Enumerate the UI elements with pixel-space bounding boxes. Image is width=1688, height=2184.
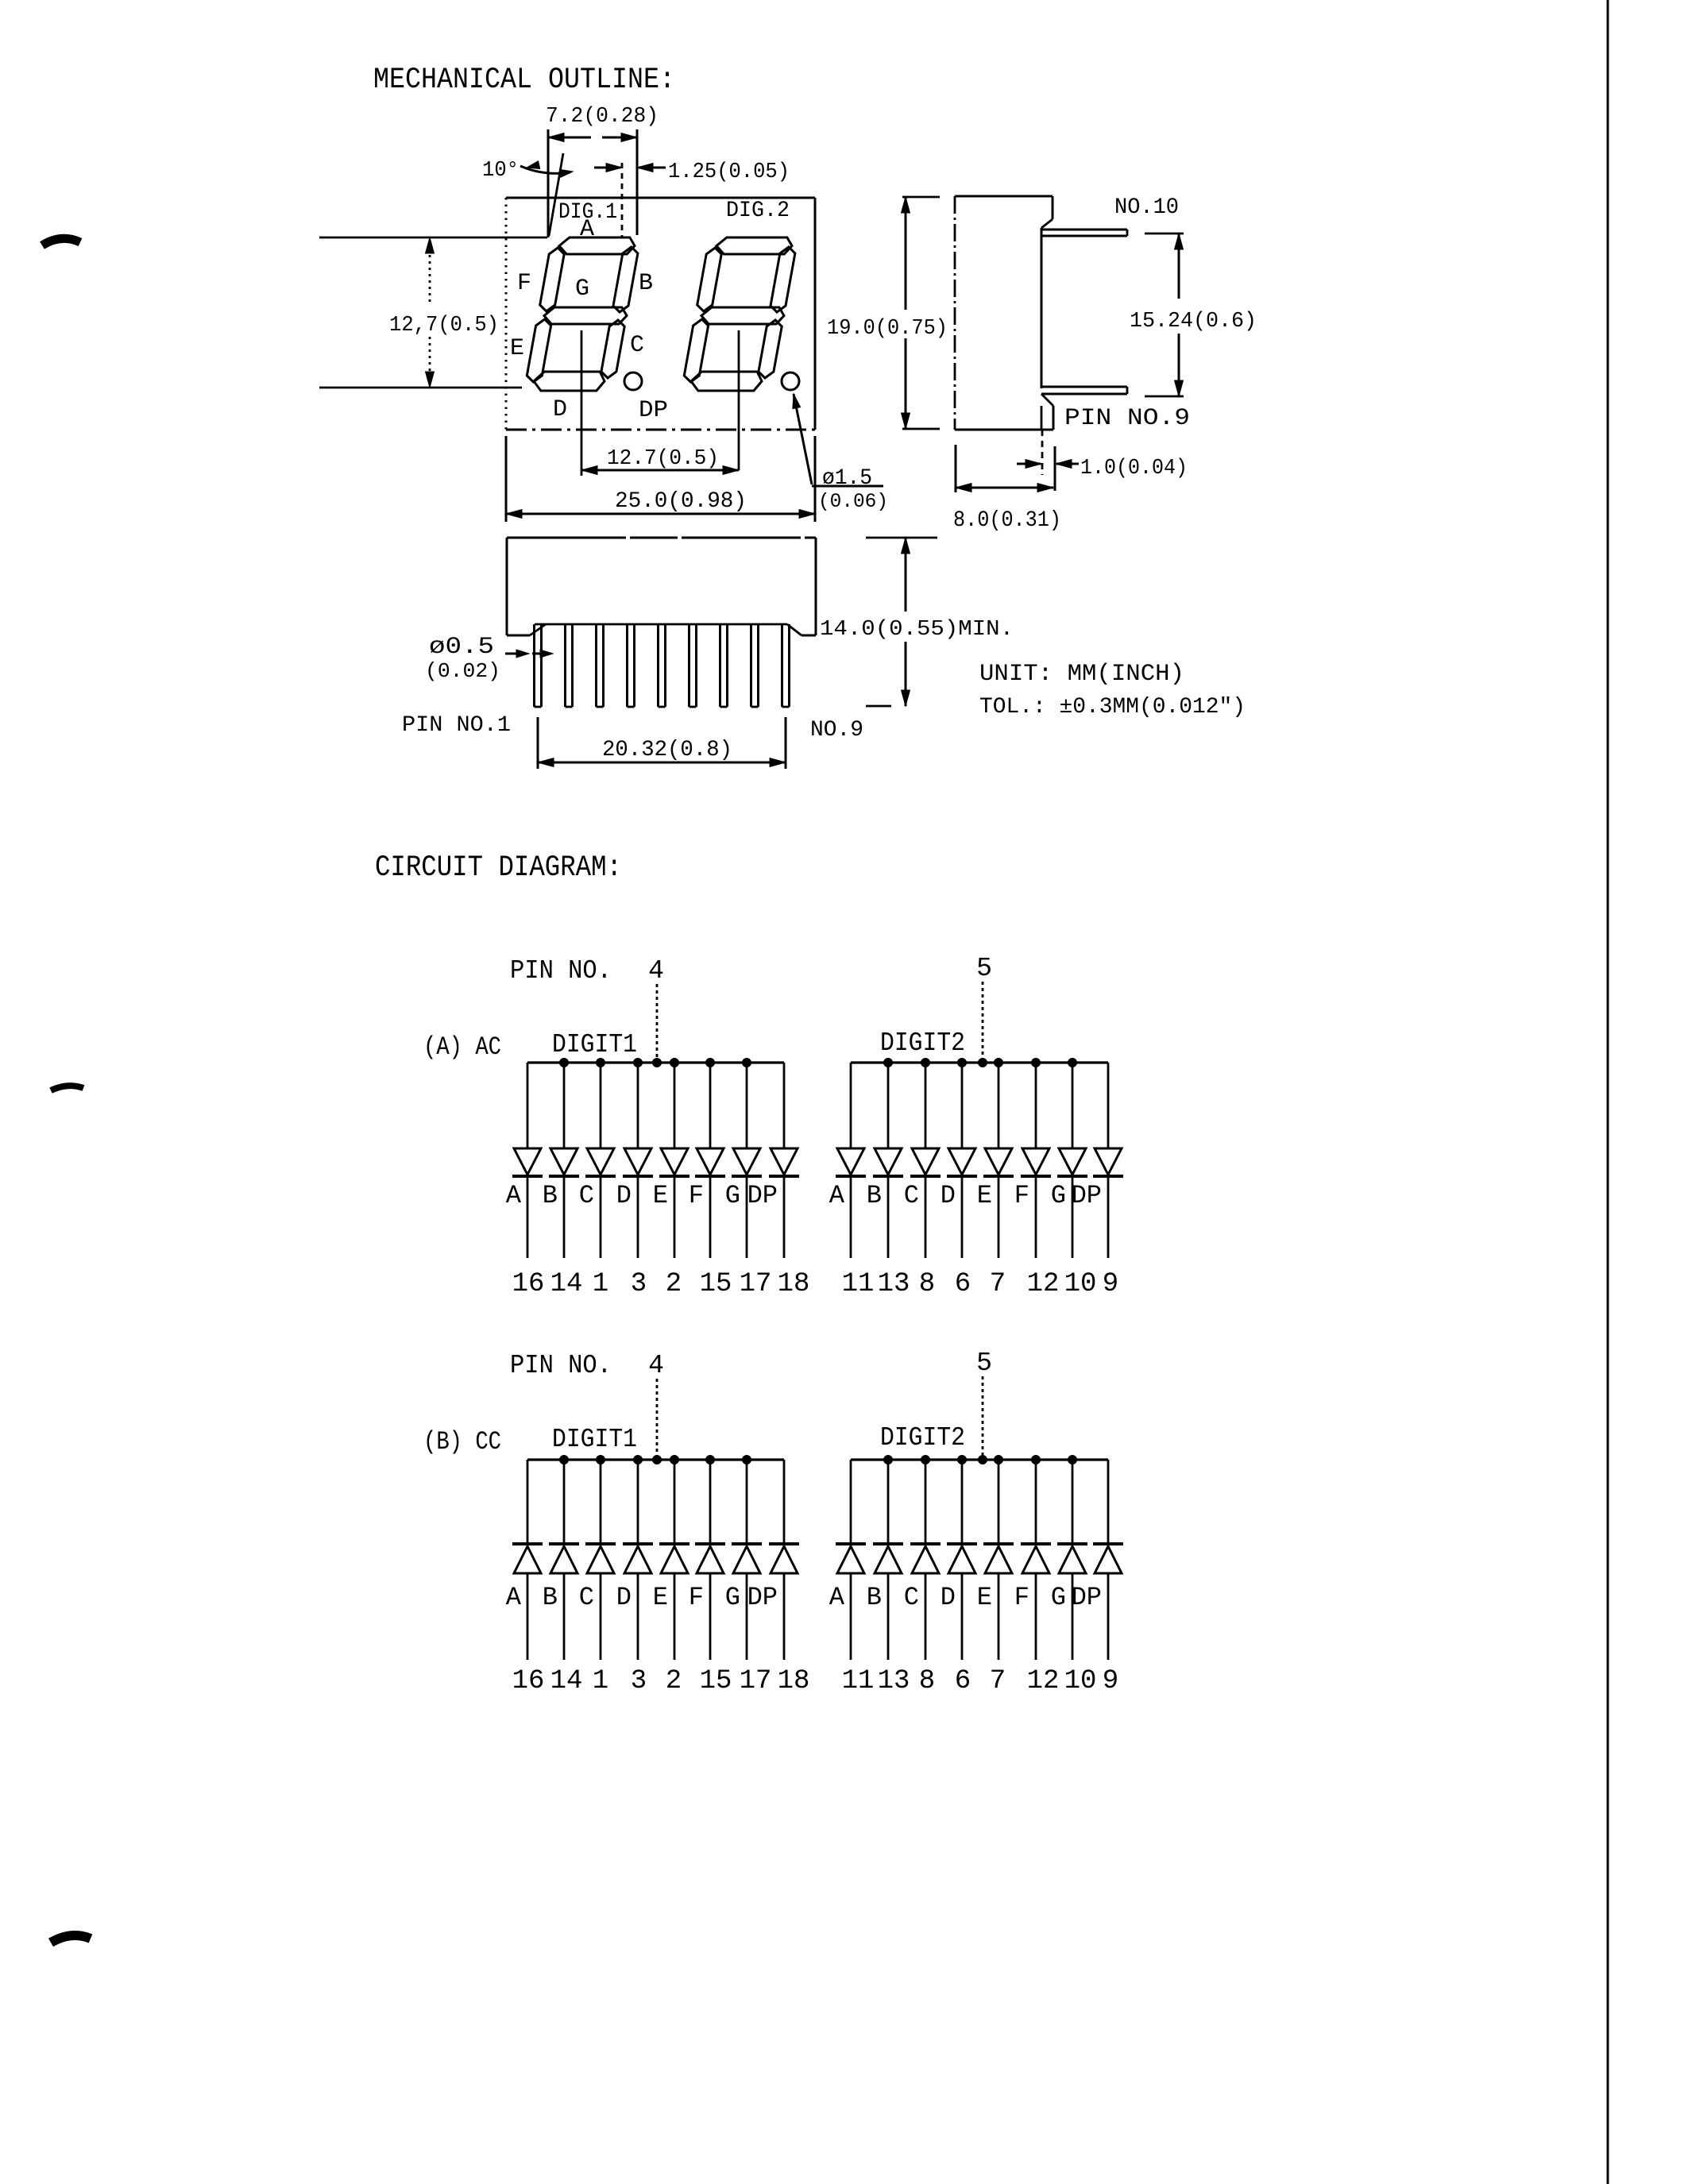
junction node (B digit2 x=1304) (1032, 1456, 1041, 1464)
svg-text:E: E (653, 1181, 668, 1210)
svg-text:D: D (616, 1583, 632, 1612)
LED diode A-DIG1-D (623, 1063, 653, 1258)
dimension 7.2(0.28) (546, 105, 659, 237)
pin 4 lead (628, 624, 635, 707)
svg-text:8: 8 (919, 1269, 935, 1299)
dimension 1.25(0.05) (594, 160, 790, 238)
LED diode A-DIG2-D (947, 1063, 977, 1258)
svg-text:15.24(0.6): 15.24(0.6) (1130, 310, 1257, 334)
pin 3 lead (597, 624, 604, 707)
dimension 20.32(0.8) (538, 717, 786, 769)
LED diode A-DIG2-F (1021, 1063, 1051, 1258)
svg-text:B: B (639, 270, 653, 297)
digit 1 decimal point (624, 372, 642, 390)
LED diode B-DIG2-F (1021, 1460, 1051, 1660)
10 degree draft angle (482, 153, 573, 236)
svg-text:F: F (517, 270, 531, 297)
front view body outline (507, 538, 816, 635)
wire pin4 to bus (A) (656, 984, 659, 1063)
junction node (B digit1 x=803) (634, 1456, 643, 1464)
LED diode B-DIG2-A (836, 1460, 866, 1660)
LED diode A-DIG2-G (1057, 1063, 1087, 1258)
svg-text:A: A (829, 1583, 845, 1612)
LED diode B-DIG1-A (512, 1460, 543, 1660)
svg-text:DP: DP (1072, 1181, 1102, 1210)
dimension 15.24(0.6) (1130, 233, 1257, 396)
svg-text:A: A (506, 1181, 522, 1210)
junction node (B digit2 x=1350) (1068, 1456, 1077, 1464)
scan blob bottom-left (51, 1935, 91, 1943)
LED diode B-DIG2-B (873, 1460, 903, 1660)
junction node (A digit1 x=803) (634, 1059, 643, 1067)
pin tab no.9 (1041, 387, 1127, 394)
svg-text:8: 8 (919, 1666, 935, 1696)
svg-text:PIN NO.1: PIN NO.1 (402, 713, 511, 738)
svg-text:19.0(0.75): 19.0(0.75) (827, 317, 948, 341)
LED diode A-DIG1-A (512, 1063, 543, 1258)
bus wire digit1 (B) (527, 1458, 784, 1461)
junction node (B digit2 x=1237) (979, 1456, 987, 1464)
LED diode B-DIG1-C (585, 1460, 616, 1660)
svg-text:9: 9 (1103, 1666, 1118, 1696)
svg-text:16: 16 (512, 1666, 545, 1696)
svg-text:E: E (977, 1583, 992, 1612)
svg-text:12: 12 (1027, 1666, 1060, 1696)
digit 1 centerline (581, 330, 583, 476)
svg-text:1: 1 (593, 1269, 608, 1299)
digit 1 seven-segment display (527, 237, 638, 391)
junction node (B digit1 x=849) (670, 1456, 679, 1464)
svg-text:B: B (543, 1181, 558, 1210)
svg-text:E: E (510, 335, 524, 362)
svg-text:C: C (630, 332, 644, 359)
svg-text:1.25(0.05): 1.25(0.05) (668, 160, 790, 184)
svg-text:UNIT: MM(INCH): UNIT: MM(INCH) (979, 661, 1184, 688)
svg-text:G: G (575, 276, 589, 303)
LED diode A-DIG2-A (836, 1063, 866, 1258)
svg-text:F: F (689, 1181, 704, 1210)
side view body outline (955, 196, 1053, 430)
scan blob middle-left (51, 1086, 83, 1090)
dimension 1.0(0.04) (1017, 430, 1188, 491)
pin tab no.10 (1041, 230, 1127, 236)
svg-text:D: D (941, 1181, 956, 1210)
svg-text:DP: DP (747, 1181, 778, 1210)
page border vertical rule (1607, 0, 1609, 2184)
svg-text:G: G (725, 1583, 740, 1612)
svg-text:DP: DP (639, 397, 668, 424)
svg-text:11: 11 (842, 1269, 875, 1299)
LED diode B-DIG1-DP (769, 1460, 799, 1660)
svg-text:10: 10 (1064, 1269, 1097, 1299)
LED diode A-DIG1-G (732, 1063, 762, 1258)
LED diode B-DIG2-DP (1093, 1460, 1123, 1660)
junction node (B digit1 x=940) (743, 1456, 751, 1464)
svg-text:12,7(0.5): 12,7(0.5) (389, 314, 499, 338)
svg-text:D: D (941, 1583, 956, 1612)
digit 2 centerline (738, 330, 740, 470)
junction node (A digit2 x=1165) (921, 1059, 930, 1067)
svg-text:DP: DP (747, 1583, 778, 1612)
svg-text:13: 13 (878, 1269, 910, 1299)
digit 2 seven-segment display (684, 237, 795, 391)
pin 9 lead (782, 624, 790, 707)
svg-text:DP: DP (1072, 1583, 1102, 1612)
svg-text:DIGIT2: DIGIT2 (880, 1028, 965, 1058)
svg-text:5: 5 (976, 1349, 992, 1378)
svg-text:25.0(0.98): 25.0(0.98) (615, 489, 747, 514)
svg-text:TOL.: ±0.3MM(0.012"): TOL.: ±0.3MM(0.012") (979, 695, 1246, 720)
svg-text:18: 18 (778, 1269, 810, 1299)
svg-text:B: B (867, 1181, 882, 1210)
svg-text:CIRCUIT DIAGRAM:: CIRCUIT DIAGRAM: (375, 851, 622, 885)
LED diode A-DIG1-C (585, 1063, 616, 1258)
pin 1 lead (535, 624, 542, 707)
dimension 12,7(0.5) left (319, 237, 547, 388)
pin 6 lead (689, 624, 697, 707)
junction node (A digit2 x=1257) (995, 1059, 1003, 1067)
svg-text:B: B (543, 1583, 558, 1612)
svg-text:B: B (867, 1583, 882, 1612)
svg-text:NO.10: NO.10 (1114, 195, 1179, 220)
svg-text:17: 17 (740, 1666, 772, 1696)
svg-text:ø0.5: ø0.5 (429, 634, 494, 661)
pin 7 lead (720, 624, 728, 707)
svg-text:7.2(0.28): 7.2(0.28) (546, 105, 659, 129)
junction node (B digit2 x=1257) (995, 1456, 1003, 1464)
LED diode A-DIG2-DP (1093, 1063, 1123, 1258)
svg-text:7: 7 (990, 1269, 1006, 1299)
junction node (B digit2 x=1165) (921, 1456, 930, 1464)
LED diode A-DIG1-B (549, 1063, 579, 1258)
wire pin4 to bus (B) (656, 1379, 659, 1460)
LED diode B-DIG1-E (659, 1460, 689, 1660)
svg-text:3: 3 (631, 1269, 647, 1299)
junction node (B digit2 x=1118) (884, 1456, 893, 1464)
LED diode A-DIG2-B (873, 1063, 903, 1258)
svg-text:15: 15 (700, 1269, 732, 1299)
wire pin5 to bus (A) (982, 982, 984, 1063)
junction node (B digit1 x=756) (597, 1456, 605, 1464)
junction node (A digit1 x=756) (597, 1059, 605, 1067)
bus wire digit1 (A) (527, 1061, 784, 1063)
LED diode B-DIG2-D (947, 1460, 977, 1660)
junction node (A digit1 x=940) (743, 1059, 751, 1067)
junction node (B digit1 x=827) (653, 1456, 662, 1464)
junction node (B digit2 x=1211) (958, 1456, 967, 1464)
svg-text:18: 18 (778, 1666, 810, 1696)
LED diode B-DIG2-E (983, 1460, 1014, 1660)
leader diameter 1.5 (0.06) (793, 394, 888, 513)
LED diode B-DIG2-C (910, 1460, 941, 1660)
dimension 19.0(0.75) (827, 197, 948, 429)
svg-text:G: G (725, 1181, 740, 1210)
svg-text:4: 4 (648, 956, 664, 986)
svg-text:C: C (579, 1181, 594, 1210)
bus wire digit2 (B) (851, 1458, 1108, 1461)
junction node (B digit1 x=894) (706, 1456, 715, 1464)
svg-text:1: 1 (593, 1666, 608, 1696)
svg-text:(0.02): (0.02) (425, 659, 500, 683)
pin 2 lead (566, 624, 573, 707)
svg-text:ø1.5: ø1.5 (822, 466, 872, 491)
svg-text:2: 2 (666, 1269, 682, 1299)
svg-text:8.0(0.31): 8.0(0.31) (953, 508, 1061, 533)
LED diode B-DIG2-G (1057, 1460, 1087, 1660)
junction node (A digit2 x=1211) (958, 1059, 967, 1067)
svg-text:12: 12 (1027, 1269, 1060, 1299)
svg-text:F: F (689, 1583, 704, 1612)
svg-text:4: 4 (648, 1351, 664, 1380)
svg-text:9: 9 (1103, 1269, 1118, 1299)
svg-text:16: 16 (512, 1269, 545, 1299)
svg-text:DIGIT2: DIGIT2 (880, 1423, 965, 1453)
svg-text:A: A (829, 1181, 845, 1210)
LED diode A-DIG2-E (983, 1063, 1014, 1258)
wire pin5 to bus (B) (982, 1376, 984, 1460)
svg-text:15: 15 (700, 1666, 732, 1696)
svg-text:12.7(0.5): 12.7(0.5) (607, 447, 719, 471)
junction node (A digit2 x=1237) (979, 1059, 987, 1067)
digit 2 decimal point (782, 372, 799, 390)
dimension 12.7(0.5) bottom (581, 442, 739, 475)
svg-text:A: A (506, 1583, 522, 1612)
svg-text:F: F (1014, 1181, 1029, 1210)
junction node (A digit2 x=1350) (1068, 1059, 1077, 1067)
junction node (A digit1 x=827) (653, 1059, 662, 1067)
svg-text:17: 17 (740, 1269, 772, 1299)
LED diode B-DIG1-D (623, 1460, 653, 1660)
svg-text:10: 10 (1064, 1666, 1097, 1696)
package outline top view (506, 198, 815, 430)
svg-text:7: 7 (990, 1666, 1006, 1696)
svg-text:(A) AC: (A) AC (423, 1032, 501, 1062)
svg-text:G: G (1051, 1181, 1066, 1210)
scan blob top-left (42, 238, 80, 245)
svg-text:10°: 10° (482, 159, 519, 183)
svg-text:14: 14 (550, 1269, 583, 1299)
pin 8 lead (751, 624, 759, 707)
svg-text:PIN NO.9: PIN NO.9 (1064, 405, 1190, 432)
junction node (A digit2 x=1118) (884, 1059, 893, 1067)
bus wire digit2 (A) (851, 1061, 1108, 1063)
LED diode A-DIG2-C (910, 1063, 941, 1258)
LED diode B-DIG1-B (549, 1460, 579, 1660)
LED diode A-DIG1-F (695, 1063, 725, 1258)
junction node (A digit1 x=849) (670, 1059, 679, 1067)
svg-text:14.0(0.55)MIN.: 14.0(0.55)MIN. (820, 618, 1014, 642)
svg-text:13: 13 (878, 1666, 910, 1696)
LED diode A-DIG1-DP (769, 1063, 799, 1258)
svg-text:MECHANICAL OUTLINE:: MECHANICAL OUTLINE: (373, 64, 675, 97)
svg-text:E: E (977, 1181, 992, 1210)
svg-text:NO.9: NO.9 (810, 718, 863, 743)
svg-text:C: C (904, 1181, 919, 1210)
svg-text:D: D (553, 396, 567, 423)
svg-text:DIGIT1: DIGIT1 (552, 1425, 637, 1454)
svg-text:1.0(0.04): 1.0(0.04) (1080, 457, 1188, 480)
svg-text:A: A (580, 216, 594, 243)
svg-text:11: 11 (842, 1666, 875, 1696)
svg-text:5: 5 (976, 954, 992, 983)
svg-text:(B) CC: (B) CC (423, 1427, 501, 1457)
svg-text:G: G (1051, 1583, 1066, 1612)
svg-text:C: C (904, 1583, 919, 1612)
junction node (A digit1 x=894) (706, 1059, 715, 1067)
junction node (A digit2 x=1304) (1032, 1059, 1041, 1067)
svg-text:6: 6 (955, 1666, 971, 1696)
LED diode B-DIG1-G (732, 1460, 762, 1660)
svg-text:PIN NO.: PIN NO. (510, 1351, 612, 1380)
LED diode A-DIG1-E (659, 1063, 689, 1258)
LED diode B-DIG1-F (695, 1460, 725, 1660)
junction node (B digit1 x=710) (560, 1456, 569, 1464)
svg-text:6: 6 (955, 1269, 971, 1299)
svg-text:DIGIT1: DIGIT1 (552, 1030, 637, 1059)
svg-text:20.32(0.8): 20.32(0.8) (602, 738, 732, 762)
dimension 8.0(0.31) (953, 445, 1061, 533)
junction node (A digit1 x=710) (560, 1059, 569, 1067)
svg-text:DIG.2: DIG.2 (726, 199, 790, 223)
svg-text:2: 2 (666, 1666, 682, 1696)
svg-text:14: 14 (550, 1666, 583, 1696)
svg-text:3: 3 (631, 1666, 647, 1696)
pin 5 lead (659, 624, 666, 707)
dimension 25.0(0.98) (506, 436, 815, 522)
svg-text:(0.06): (0.06) (818, 490, 888, 513)
dimension 14.0(0.55)MIN. (820, 538, 1014, 706)
dimension dia 0.5 (0.02) (425, 634, 553, 683)
svg-text:PIN NO.: PIN NO. (510, 956, 612, 986)
svg-text:D: D (616, 1181, 632, 1210)
svg-text:F: F (1014, 1583, 1029, 1612)
svg-text:E: E (653, 1583, 668, 1612)
svg-text:C: C (579, 1583, 594, 1612)
